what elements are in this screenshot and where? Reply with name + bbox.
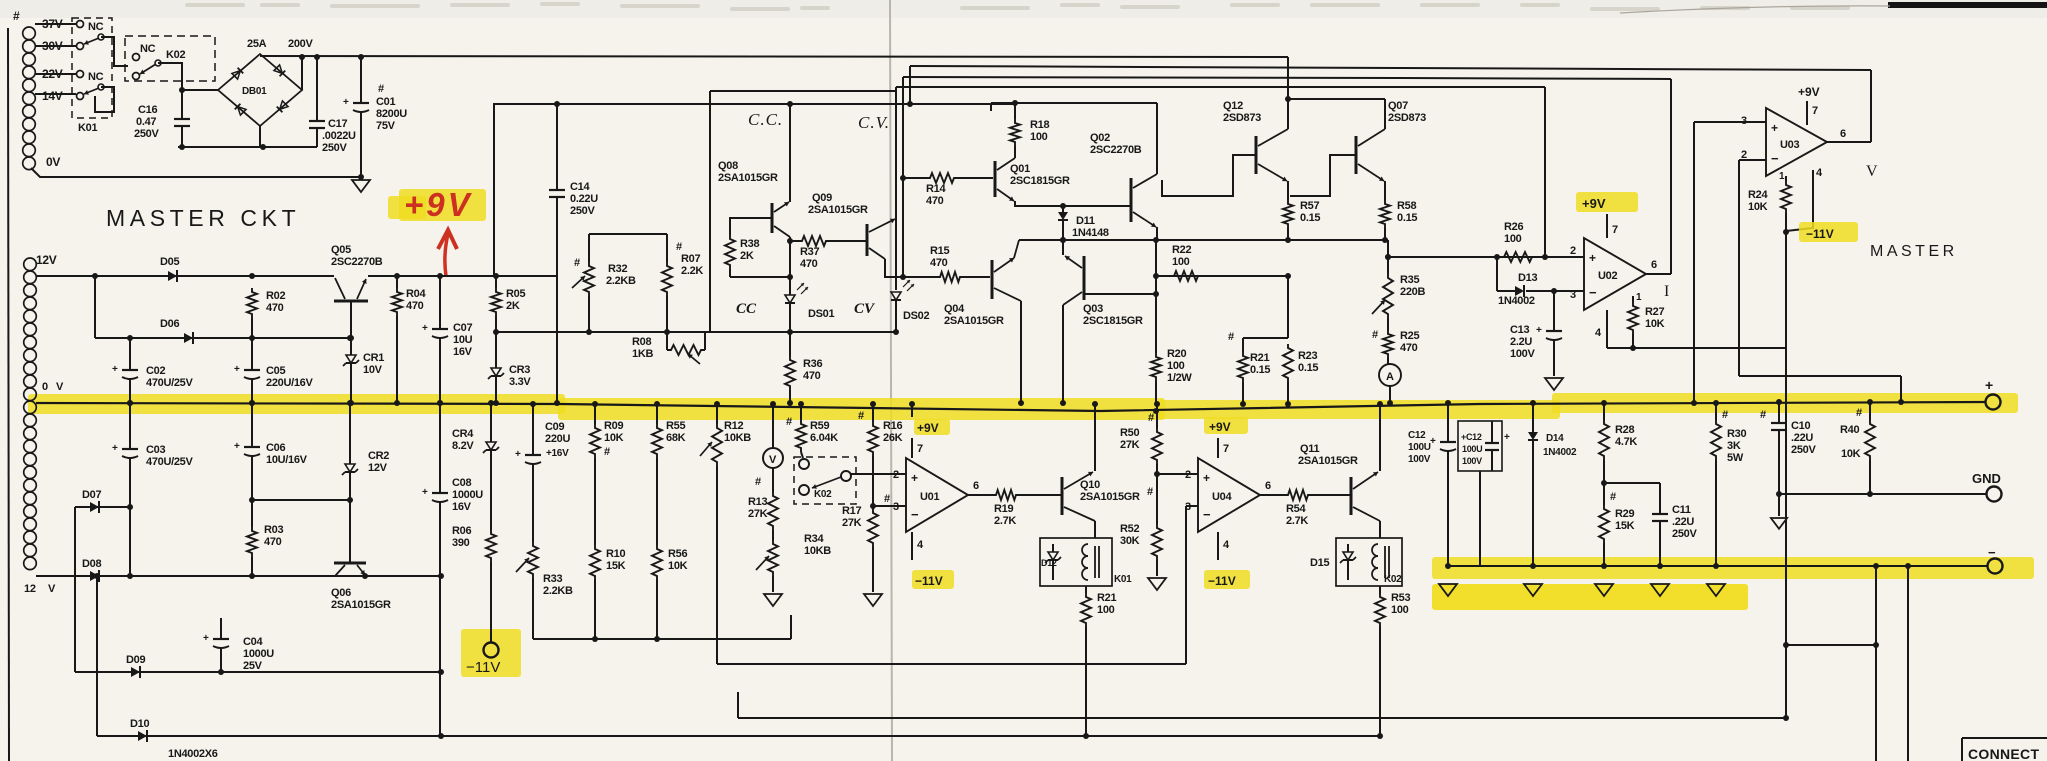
- +9V highlight U04: [1204, 417, 1248, 434]
- label R27: [1645, 306, 1665, 330]
- resistor R06: [486, 530, 496, 643]
- svg-text:R26: R26: [1504, 221, 1523, 233]
- resistor R22: [1170, 271, 1202, 281]
- svg-text:470: 470: [1400, 342, 1418, 354]
- tap label 30V: [42, 39, 63, 53]
- svg-text:R55: R55: [666, 420, 685, 432]
- diode D05: [168, 270, 177, 282]
- svg-text:R06: R06: [452, 525, 471, 537]
- label pin2 U04: [1185, 469, 1191, 481]
- label C05: [266, 365, 313, 389]
- relay contacts K02: [125, 36, 215, 81]
- wire bridge bottom: [259, 126, 261, 147]
- wire tap 37V: [35, 23, 76, 25]
- label R52: [1120, 523, 1140, 547]
- svg-text:220B: 220B: [1400, 286, 1425, 298]
- label C02: [146, 365, 193, 389]
- label D12: [1041, 558, 1057, 568]
- +9V highlight U02: [1576, 192, 1638, 212]
- svg-text:R53: R53: [1391, 592, 1410, 604]
- GND terminal: [1972, 471, 2002, 502]
- label pin3 U03: [1741, 115, 1747, 127]
- pot R32: [572, 262, 594, 335]
- svg-text:0.15: 0.15: [1250, 364, 1270, 376]
- wire driver base row H8: [1019, 237, 1388, 243]
- svg-text:10V: 10V: [363, 364, 383, 376]
- pin4 U03 wire: [1786, 167, 1823, 231]
- svg-text:MASTER: MASTER: [1870, 243, 1958, 260]
- svg-text:+: +: [911, 471, 918, 485]
- svg-text:+: +: [1430, 436, 1436, 447]
- label R25: [1372, 329, 1419, 354]
- svg-text:1000U: 1000U: [452, 489, 483, 501]
- label C11: [1672, 504, 1697, 540]
- svg-text:R04: R04: [406, 288, 426, 300]
- svg-text:10U/16V: 10U/16V: [266, 454, 308, 466]
- resistor R26: [1494, 252, 1584, 262]
- svg-text:7: 7: [1812, 105, 1818, 117]
- label D10: [130, 718, 149, 730]
- svg-text:14V: 14V: [42, 89, 63, 103]
- svg-text:R07: R07: [681, 253, 700, 265]
- diode D13 parallel: [1497, 257, 1584, 297]
- svg-text:12V: 12V: [36, 253, 57, 267]
- label R58: [1397, 200, 1417, 224]
- rail segment with R15: [903, 276, 990, 278]
- wire 0V rail: [31, 168, 361, 177]
- svg-text:100U: 100U: [1408, 442, 1431, 453]
- label C04: [243, 636, 274, 672]
- transistor Q02: [1131, 103, 1157, 240]
- CONNECT box: [1962, 738, 2047, 761]
- svg-text:#: #: [676, 241, 682, 253]
- svg-text:250V: 250V: [134, 128, 159, 140]
- svg-text:V: V: [56, 381, 64, 393]
- transistor Q07: [1290, 99, 1385, 200]
- pot R08: [667, 332, 705, 364]
- svg-text:#: #: [1228, 331, 1234, 343]
- label R22: [1172, 244, 1191, 268]
- wire D08 row: [36, 573, 444, 579]
- resistor R21 current sense: [1238, 352, 1248, 407]
- label D06: [160, 318, 179, 330]
- svg-text:27K: 27K: [1120, 439, 1140, 451]
- capacitor C07: [422, 276, 448, 406]
- label D13: [1498, 272, 1537, 307]
- label R10: [606, 548, 626, 572]
- capacitor C14: [549, 104, 565, 406]
- pin4 U02 wire: [1595, 310, 1786, 348]
- svg-text:R37: R37: [800, 246, 819, 258]
- svg-text:C10: C10: [1791, 420, 1810, 432]
- capacitor C09: [515, 401, 541, 542]
- transformer T1 primary winding: [23, 24, 44, 170]
- resistor R25: [1383, 318, 1393, 364]
- svg-text:7: 7: [1223, 443, 1229, 455]
- label C07: [453, 322, 473, 358]
- label Q11: [1298, 443, 1358, 467]
- svg-text:C01: C01: [376, 96, 395, 108]
- pot R34: [756, 540, 778, 592]
- wire R18 top row: [991, 103, 1157, 111]
- svg-text:−: −: [1771, 151, 1779, 166]
- svg-text:+: +: [343, 97, 349, 108]
- svg-text:10K: 10K: [604, 432, 624, 444]
- ground symbol main filter: [352, 180, 370, 192]
- svg-text:+C12: +C12: [1461, 432, 1482, 442]
- svg-text:68K: 68K: [666, 432, 686, 444]
- svg-text:Q05: Q05: [331, 244, 351, 256]
- svg-text:K02: K02: [814, 489, 832, 500]
- wire U04 pin3 loop: [1186, 506, 1198, 664]
- negative terminal: [1988, 545, 2003, 574]
- svg-text:10U: 10U: [453, 334, 473, 346]
- relay K01 coil box: [1040, 538, 1112, 586]
- svg-text:#: #: [1760, 409, 1766, 421]
- svg-text:K02: K02: [1384, 574, 1402, 585]
- svg-text:CONNECT: CONNECT: [1968, 746, 2039, 761]
- label Q08: [718, 160, 778, 184]
- label pin3 U04: [1185, 501, 1191, 513]
- resistor R05: [491, 276, 501, 335]
- wire vertical feed to C.C. node: [494, 101, 1013, 276]
- pin4 U04: [1218, 532, 1230, 560]
- resistor R07: [662, 262, 672, 335]
- wire K02 output: [158, 63, 185, 119]
- long wire W1: [533, 615, 791, 642]
- svg-text:0.15: 0.15: [1397, 212, 1417, 224]
- svg-text:−: −: [911, 507, 919, 522]
- svg-text:U02: U02: [1598, 270, 1617, 282]
- svg-text:100: 100: [1097, 604, 1115, 616]
- svg-text:220U: 220U: [545, 433, 570, 445]
- svg-text:C03: C03: [146, 444, 165, 456]
- svg-text:C05: C05: [266, 365, 285, 377]
- label DB01: [242, 86, 267, 97]
- svg-text:+9V: +9V: [917, 421, 939, 435]
- svg-text:6.04K: 6.04K: [810, 432, 838, 444]
- pin6 wire U04: [1260, 480, 1284, 495]
- svg-text:#: #: [755, 476, 761, 488]
- svg-text:+: +: [1589, 251, 1596, 265]
- svg-text:R59: R59: [810, 420, 829, 432]
- svg-text:C07: C07: [453, 322, 472, 334]
- svg-text:2SA1015GR: 2SA1015GR: [808, 204, 868, 216]
- svg-text:DS02: DS02: [903, 310, 929, 322]
- svg-text:R23: R23: [1298, 350, 1317, 362]
- -11V highlight U01: [912, 570, 954, 589]
- svg-text:470: 470: [264, 536, 282, 548]
- svg-text:2K: 2K: [506, 300, 520, 312]
- label NC K01 lower: [88, 71, 104, 83]
- svg-text:Q01: Q01: [1010, 163, 1030, 175]
- svg-text:#: #: [786, 416, 792, 428]
- rail right of Q05: [368, 275, 557, 277]
- svg-text:200V: 200V: [288, 38, 313, 50]
- svg-text:U03: U03: [1780, 139, 1799, 151]
- transformer T2 secondary winding: [24, 258, 37, 570]
- wire D07 row: [75, 504, 133, 579]
- resistor R24: [1779, 171, 1791, 235]
- svg-text:K01: K01: [1114, 574, 1132, 585]
- zener CR4: [483, 400, 499, 530]
- transistor Q08: [730, 104, 790, 276]
- label C12: [1408, 430, 1431, 465]
- label 200V: [288, 38, 313, 50]
- label R23: [1298, 350, 1318, 374]
- wire R26 feed: [1385, 254, 1545, 260]
- svg-text:6: 6: [1265, 480, 1271, 492]
- zener CR1: [343, 335, 359, 406]
- svg-text:U04: U04: [1212, 491, 1232, 503]
- label R02: [266, 290, 285, 314]
- svg-text:I: I: [1664, 283, 1669, 300]
- wire U02 output feedback up: [1670, 79, 1672, 274]
- svg-text:−: −: [1988, 545, 1996, 560]
- svg-text:R22: R22: [1172, 244, 1191, 256]
- -11V highlight U04: [1204, 570, 1250, 589]
- label R08: [632, 336, 653, 360]
- resistor R40: [1856, 399, 1875, 497]
- capacitor C16: [174, 119, 190, 147]
- svg-text:470U/25V: 470U/25V: [146, 377, 193, 389]
- voltmeter V: [763, 401, 783, 492]
- svg-text:6: 6: [1840, 128, 1846, 140]
- svg-text:R03: R03: [264, 524, 283, 536]
- svg-text:+: +: [1203, 471, 1210, 485]
- svg-text:2: 2: [1570, 245, 1576, 257]
- svg-text:470: 470: [800, 258, 818, 270]
- svg-text:−11V: −11V: [1208, 574, 1236, 588]
- svg-text:1/2W: 1/2W: [1167, 372, 1192, 384]
- label R32: [574, 257, 636, 287]
- label pin2 U01: [893, 469, 899, 481]
- svg-text:CR4: CR4: [452, 428, 474, 440]
- LED DS01: [785, 277, 808, 332]
- svg-text:100: 100: [1030, 131, 1048, 143]
- pin6 wire U03: [1827, 70, 1871, 142]
- svg-text:30K: 30K: [1120, 535, 1140, 547]
- bus wire H3 feedback I: [903, 77, 1671, 79]
- label R35: [1400, 274, 1425, 298]
- svg-text:+9V: +9V: [1798, 85, 1820, 99]
- wire tap 30V: [35, 45, 76, 47]
- svg-text:2SC2270B: 2SC2270B: [331, 256, 383, 268]
- svg-text:0.15: 0.15: [1298, 362, 1318, 374]
- svg-text:1: 1: [1779, 171, 1785, 182]
- positive output terminal: [1985, 377, 2001, 410]
- capacitor C10: [1771, 399, 1787, 516]
- handwritten V mark: [1866, 163, 1878, 180]
- pot R35: [1372, 240, 1393, 318]
- diode D15: [1340, 544, 1356, 580]
- label Q07: [1388, 100, 1426, 124]
- ground C13: [1545, 378, 1563, 390]
- label R16: [858, 410, 903, 444]
- negative aux terminal -11V: [466, 643, 500, 677]
- svg-text:Q06: Q06: [331, 587, 351, 599]
- label R09: [604, 420, 624, 458]
- pot R33: [516, 542, 538, 639]
- svg-text:D14: D14: [1546, 433, 1564, 444]
- C.C. C.V. block outline box: [710, 87, 896, 332]
- diode D12: [1045, 544, 1061, 580]
- wire D06 branch: [95, 276, 353, 341]
- relay K02 coil box: [1336, 538, 1402, 586]
- svg-text:#: #: [1372, 329, 1378, 341]
- capacitor C12 first: [1430, 400, 1456, 569]
- label R12: [724, 420, 751, 444]
- label MASTER: [1870, 243, 1958, 260]
- svg-text:Q03: Q03: [1083, 303, 1103, 315]
- wire U03 pin2: [1739, 160, 1766, 376]
- label NC K01 upper: [88, 21, 104, 33]
- resistor R56: [652, 545, 662, 639]
- label Q02: [1090, 132, 1142, 156]
- capacitor C08: [422, 400, 448, 736]
- svg-text:CR1: CR1: [363, 352, 384, 364]
- bridge rectifier DB01: [218, 54, 302, 126]
- label D09: [126, 654, 145, 666]
- zener CR3: [488, 332, 504, 406]
- resistor R20: [1151, 237, 1161, 414]
- long wire W3: [738, 692, 1789, 721]
- svg-text:+: +: [422, 487, 428, 498]
- label D05: [160, 256, 179, 268]
- label K01 coil: [1114, 574, 1132, 585]
- svg-text:2K: 2K: [740, 250, 754, 262]
- wire bridge AC left: [182, 89, 218, 91]
- svg-text:Q04: Q04: [944, 303, 965, 315]
- label R04: [406, 288, 426, 312]
- svg-text:250V: 250V: [570, 205, 595, 217]
- label R03: [264, 524, 283, 548]
- label Q10: [1080, 479, 1140, 503]
- wire to connect block B: [1907, 566, 1909, 761]
- label D08: [82, 558, 101, 570]
- svg-text:2.2U: 2.2U: [1510, 336, 1532, 348]
- label R59: [786, 416, 838, 444]
- wire U03 pin3: [1691, 122, 1766, 406]
- capacitor C02: [112, 338, 138, 406]
- resistor R52: [1147, 474, 1162, 576]
- resistor R28: [1599, 400, 1609, 486]
- svg-text:DS01: DS01: [808, 308, 834, 320]
- svg-text:470: 470: [406, 300, 424, 312]
- svg-text:K01: K01: [78, 122, 97, 134]
- svg-text:1N4002: 1N4002: [1498, 295, 1535, 307]
- svg-text:250V: 250V: [1791, 444, 1816, 456]
- svg-text:8200U: 8200U: [376, 108, 407, 120]
- svg-text:R36: R36: [803, 358, 822, 370]
- svg-text:NC: NC: [140, 43, 156, 55]
- svg-text:+: +: [203, 633, 209, 644]
- svg-text:R56: R56: [668, 548, 687, 560]
- left page border: [8, 28, 9, 761]
- pin6 wire U01: [968, 480, 992, 495]
- svg-text:27K: 27K: [748, 508, 768, 520]
- resistor R59: [796, 401, 806, 458]
- svg-text:100: 100: [1391, 604, 1409, 616]
- svg-text:4.7K: 4.7K: [1615, 436, 1637, 448]
- svg-text:C09: C09: [545, 421, 564, 433]
- pin7 U03: [1807, 101, 1818, 125]
- capacitor C03: [112, 400, 138, 507]
- svg-text:D11: D11: [1076, 215, 1095, 227]
- svg-text:3K: 3K: [1727, 440, 1741, 452]
- svg-text:−: −: [1589, 285, 1597, 300]
- label CR3: [509, 364, 531, 388]
- svg-text:+: +: [1985, 377, 1993, 393]
- wire CR2 row: [252, 497, 353, 503]
- svg-text:R24: R24: [1748, 189, 1768, 201]
- transistor Q06: [334, 500, 366, 576]
- svg-text:250V: 250V: [322, 142, 347, 154]
- svg-text:C08: C08: [452, 477, 471, 489]
- svg-text:2: 2: [1185, 469, 1191, 481]
- svg-text:−11V: −11V: [915, 574, 943, 588]
- svg-text:D07: D07: [82, 489, 101, 501]
- label C16: [134, 104, 159, 140]
- capacitor C11: [1604, 483, 1668, 569]
- label R15: [930, 245, 949, 269]
- svg-text:R19: R19: [994, 503, 1013, 515]
- transistor Q12: [1162, 99, 1288, 200]
- label R57: [1300, 200, 1320, 224]
- pin4 U01: [912, 532, 924, 560]
- label DS02: [903, 310, 929, 322]
- svg-text:V: V: [1866, 163, 1878, 180]
- svg-text:100V: 100V: [1510, 348, 1535, 360]
- svg-text:Q12: Q12: [1223, 100, 1243, 112]
- svg-text:100: 100: [1167, 360, 1185, 372]
- label R34: [804, 533, 831, 557]
- svg-text:Q02: Q02: [1090, 132, 1110, 144]
- svg-text:U01: U01: [920, 491, 939, 503]
- switch box K02 sense: [794, 457, 856, 504]
- svg-text:15K: 15K: [1615, 520, 1635, 532]
- svg-text:R14: R14: [926, 183, 946, 195]
- capacitor C12 second boxed: [1458, 421, 1510, 566]
- svg-text:R16: R16: [883, 420, 902, 432]
- svg-text:R57: R57: [1300, 200, 1319, 212]
- svg-text:+: +: [112, 364, 118, 375]
- svg-text:C12: C12: [1408, 430, 1426, 441]
- svg-text:R38: R38: [740, 238, 759, 250]
- svg-text:#: #: [604, 446, 610, 458]
- svg-text:470: 470: [926, 195, 944, 207]
- svg-text:NC: NC: [88, 21, 104, 33]
- svg-text:25V: 25V: [243, 660, 263, 672]
- pot R32 with R07 link box: [589, 234, 667, 262]
- svg-text:26K: 26K: [883, 432, 903, 444]
- capacitor C13: [1536, 291, 1562, 376]
- svg-text:K02: K02: [166, 49, 185, 61]
- red arrow annotation: [438, 230, 457, 276]
- ground R52: [1148, 578, 1166, 590]
- title MASTER CKT: [106, 205, 300, 231]
- svg-text:1000U: 1000U: [243, 648, 274, 660]
- svg-text:6: 6: [1651, 259, 1657, 271]
- jog wire W3 to minus vertical: [1786, 642, 1879, 648]
- svg-text:C06: C06: [266, 442, 285, 454]
- svg-text:R33: R33: [543, 573, 562, 585]
- svg-text:#: #: [1722, 409, 1728, 421]
- pin7 U02: [1607, 214, 1618, 238]
- wire bridge right to rail: [299, 54, 305, 90]
- svg-text:2SA1015GR: 2SA1015GR: [1080, 491, 1140, 503]
- diode D06: [184, 332, 193, 344]
